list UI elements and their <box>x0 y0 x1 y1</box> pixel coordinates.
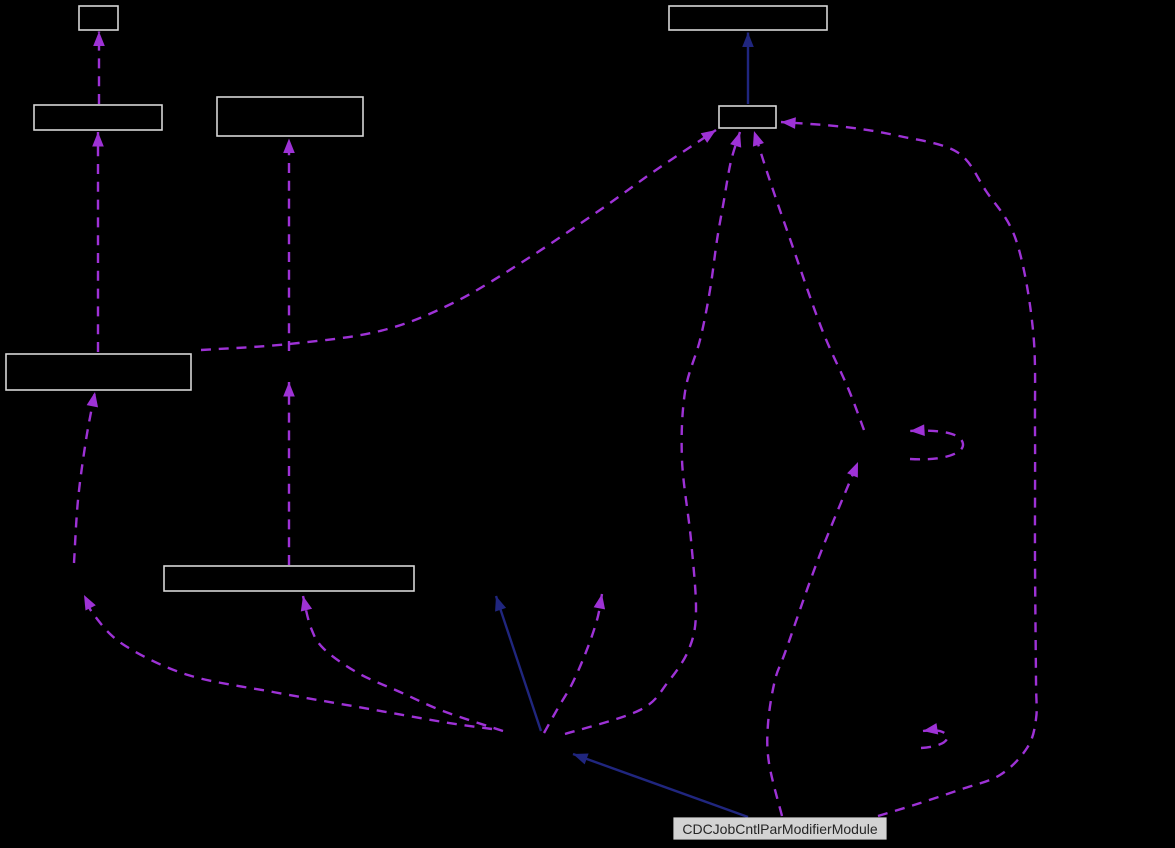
node box4 left <box>6 354 191 390</box>
node box2 <box>34 105 162 130</box>
edge E8 node N2 to box5 <box>303 596 503 731</box>
edge E14 label box to node N5 <box>767 462 858 816</box>
node box6 top-right <box>669 6 827 30</box>
edge E5 box4 to box7 long curve <box>201 130 716 350</box>
edge E1 box2 to box1 <box>98 32 100 105</box>
edge ER label box to box7 right curve <box>781 122 1037 816</box>
edge E10 label box to node N2 solid <box>573 754 748 817</box>
edge E11 node N2 to node N4 <box>544 594 602 733</box>
edge E9 node N2 to node N3 solid <box>496 596 541 731</box>
edge E3 node N1 to box3 <box>288 139 290 352</box>
edge self-loop node N5 <box>910 431 963 460</box>
edge E13 node N5 to box7 <box>754 131 864 430</box>
edge E7 node N2 to node N7 <box>84 595 492 729</box>
node box1 top-left <box>79 6 118 30</box>
edge E2 box4 to box2 <box>97 132 99 352</box>
edge E6 node N7 to box4 <box>74 392 95 563</box>
edge self-loop node N6 <box>921 730 947 748</box>
edge E4 box5 to node N1 <box>288 382 290 565</box>
edge box7 to box6 solid <box>747 33 749 105</box>
edge E12 node N2 to box7 <box>565 132 740 734</box>
node box3 <box>217 97 363 136</box>
node box5 <box>164 566 414 591</box>
svg-text:CDCJobCntlParModifierModule: CDCJobCntlParModifierModule <box>682 821 878 837</box>
node label box CDCJobCntlParModifierModule <box>674 818 886 839</box>
node box7 <box>719 106 776 128</box>
